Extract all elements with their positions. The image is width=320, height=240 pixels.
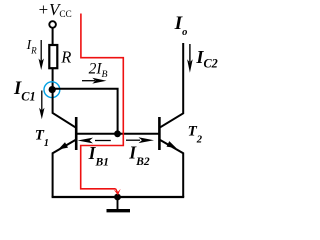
junction dot at base node xyxy=(114,130,121,137)
transistor T1 emitter arrow xyxy=(58,142,68,149)
node A highlight circle xyxy=(44,82,60,98)
red arrow into ground node xyxy=(114,189,121,196)
wire node A to base junction xyxy=(53,89,118,134)
terminal +Vcc xyxy=(49,21,56,28)
wire resistor R to node A xyxy=(52,69,54,90)
transistor T2 base bar xyxy=(158,117,161,150)
arrow I_B2 xyxy=(126,137,154,143)
transistor T1 emitter wire xyxy=(53,140,76,197)
arrow I_C1 xyxy=(39,91,44,120)
ground junction dot xyxy=(114,194,121,201)
wire bottom emitter rail xyxy=(52,196,185,198)
transistor T2 collector wire xyxy=(160,43,184,128)
resistor R xyxy=(49,45,57,68)
arrow 2I_B xyxy=(82,78,107,84)
transistor T1 collector wire xyxy=(53,90,76,128)
node A junction dot xyxy=(49,86,56,93)
arrow I_C2 xyxy=(187,44,193,73)
svg-text:R: R xyxy=(60,48,71,67)
ground xyxy=(107,197,131,211)
transistor T2 emitter wire xyxy=(160,140,184,197)
transistor T1 base bar xyxy=(75,117,78,150)
wire Vcc terminal to resistor R xyxy=(52,28,54,45)
wire base rail T1 to T2 xyxy=(76,133,159,135)
arrow I_R xyxy=(39,40,44,70)
red feedback path annotation xyxy=(81,14,124,189)
arrow I_B1 xyxy=(78,138,111,144)
transistor T2 emitter arrow xyxy=(167,141,177,148)
